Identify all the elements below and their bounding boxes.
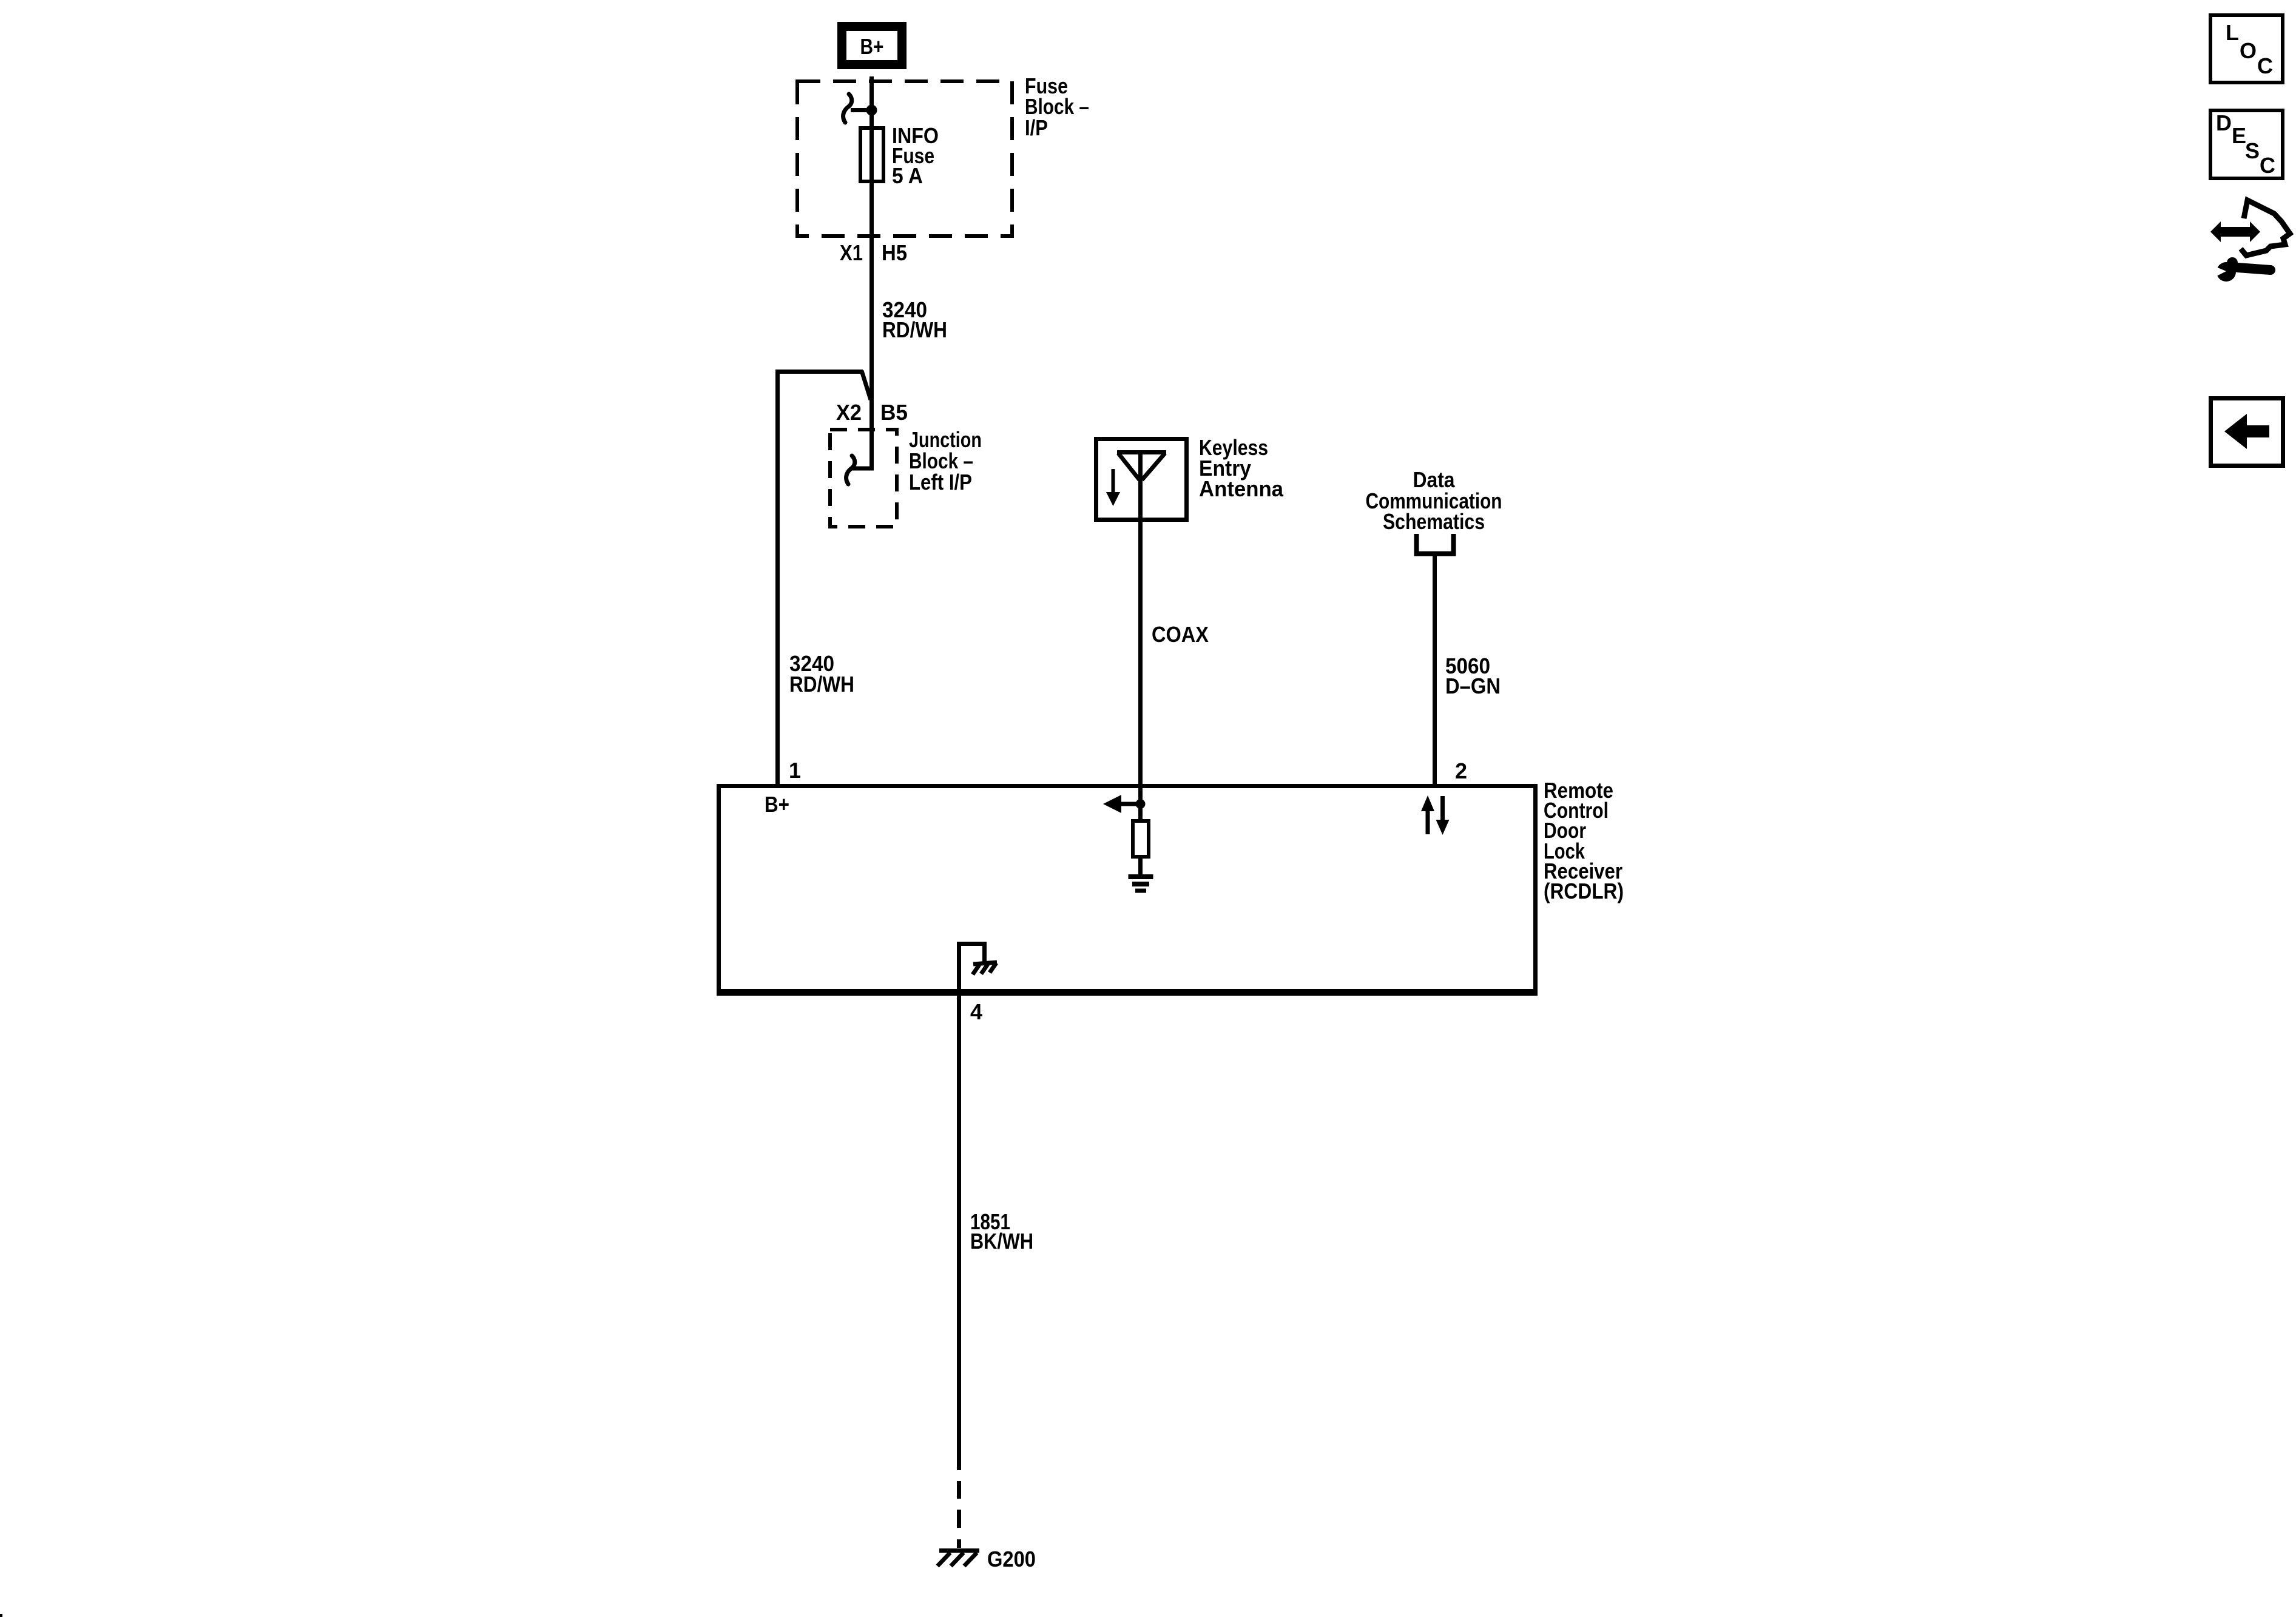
connector service icon (arrow + connector + wrench) (2210, 200, 2290, 282)
internal resistor (1133, 821, 1149, 857)
serial data up/down arrows inside RCDLR (1421, 795, 1450, 835)
wire: resistor to signal ground (1138, 857, 1143, 876)
back navigation arrow box (2211, 399, 2283, 466)
wire: serial data 5060 D-GN to pin 2 (1433, 556, 1437, 784)
page corner mark (0, 1614, 2, 1617)
svg-text:S: S (2245, 138, 2260, 163)
svg-text:1: 1 (789, 758, 801, 783)
junction block dashed box (Junction Block - Left I/P) (830, 430, 897, 527)
power feed B+ box (842, 27, 902, 65)
wire label 3240 RD/WH (upper) (882, 297, 947, 342)
wire: antenna mast / coax down to RCDLR (1138, 452, 1143, 784)
fuse block label (1025, 73, 1089, 140)
connector labels X1 | H5 (840, 240, 907, 265)
data communication schematics label (1366, 467, 1502, 534)
svg-text:COAX: COAX (1152, 622, 1209, 647)
wire: B+ feed down through fuse to junction block elbow (851, 76, 872, 468)
junction dot (splice) (866, 105, 877, 116)
wire: pin 4 ground 1851 BK/WH (957, 994, 961, 1470)
svg-text:BK/WH: BK/WH (970, 1229, 1033, 1254)
wire: dashed continuation to G200 (957, 1481, 961, 1548)
svg-text:G200: G200 (987, 1547, 1036, 1571)
keyless entry antenna label (1199, 435, 1284, 501)
ground G200 chassis symbol (937, 1551, 979, 1567)
internal antenna input: stub, arrow, splice dot (1103, 784, 1146, 820)
svg-text:B5: B5 (880, 400, 908, 425)
terminal hook (female terminal, fuse block) (843, 94, 852, 123)
wire label 5060 D-GN (1445, 653, 1501, 698)
svg-text:RD/WH: RD/WH (789, 672, 854, 697)
off-page reference symbol (1417, 534, 1454, 554)
svg-text:D–GN: D–GN (1445, 673, 1501, 698)
signal ground (3-bar) (1129, 877, 1153, 891)
svg-text:E: E (2232, 123, 2246, 148)
svg-text:Schematics: Schematics (1383, 509, 1485, 534)
connector labels X2 | B5 (836, 400, 908, 425)
svg-text:O: O (2240, 38, 2257, 63)
svg-text:B+: B+ (765, 792, 789, 817)
junction block label (909, 427, 982, 495)
RCDLR box bottom edge (thicker) (717, 989, 1538, 993)
terminal hook (female terminal, junction block) (846, 456, 855, 484)
svg-text:Left I/P: Left I/P (909, 470, 972, 495)
svg-text:2: 2 (1455, 758, 1467, 783)
LOC nav box (2210, 15, 2283, 83)
svg-text:L: L (2226, 20, 2239, 45)
antenna symbol (1117, 453, 1166, 481)
svg-text:4: 4 (970, 999, 982, 1024)
fuse label INFO Fuse 5 A (892, 123, 939, 188)
svg-text:5 A: 5 A (892, 163, 923, 188)
keyless entry antenna box (1096, 439, 1187, 520)
wire: angled tap from branch into main run (862, 371, 871, 400)
svg-text:Antenna: Antenna (1199, 476, 1284, 501)
svg-text:C: C (2257, 53, 2273, 78)
fuse F: INFO Fuse 5 A (860, 128, 883, 181)
wire label 3240 RD/WH (lower) (789, 651, 854, 697)
wire label 1851 BK/WH (970, 1209, 1033, 1254)
fuse block dashed box (Fuse Block - I/P) (797, 81, 1012, 236)
pin 4 internal ground elbow (959, 944, 985, 992)
svg-text:RD/WH: RD/WH (882, 317, 947, 342)
DESC nav box (2210, 110, 2283, 178)
antenna output arrow (down) (1106, 469, 1120, 506)
svg-text:D: D (2216, 110, 2232, 135)
terminal lead to junction dot (851, 108, 868, 112)
RCDLR label (1544, 778, 1624, 903)
svg-text:I/P: I/P (1025, 115, 1048, 140)
svg-text:X2: X2 (836, 400, 862, 425)
svg-text:C: C (2260, 153, 2275, 178)
svg-text:(RCDLR): (RCDLR) (1544, 879, 1624, 903)
internal chassis ground hatch (973, 962, 997, 974)
svg-text:B+: B+ (860, 34, 884, 59)
wire: branch to pin 1 (horizontal + down left side) (778, 372, 863, 785)
RCDLR box (719, 786, 1536, 994)
svg-text:X1: X1 (840, 240, 863, 265)
svg-text:H5: H5 (882, 240, 907, 265)
